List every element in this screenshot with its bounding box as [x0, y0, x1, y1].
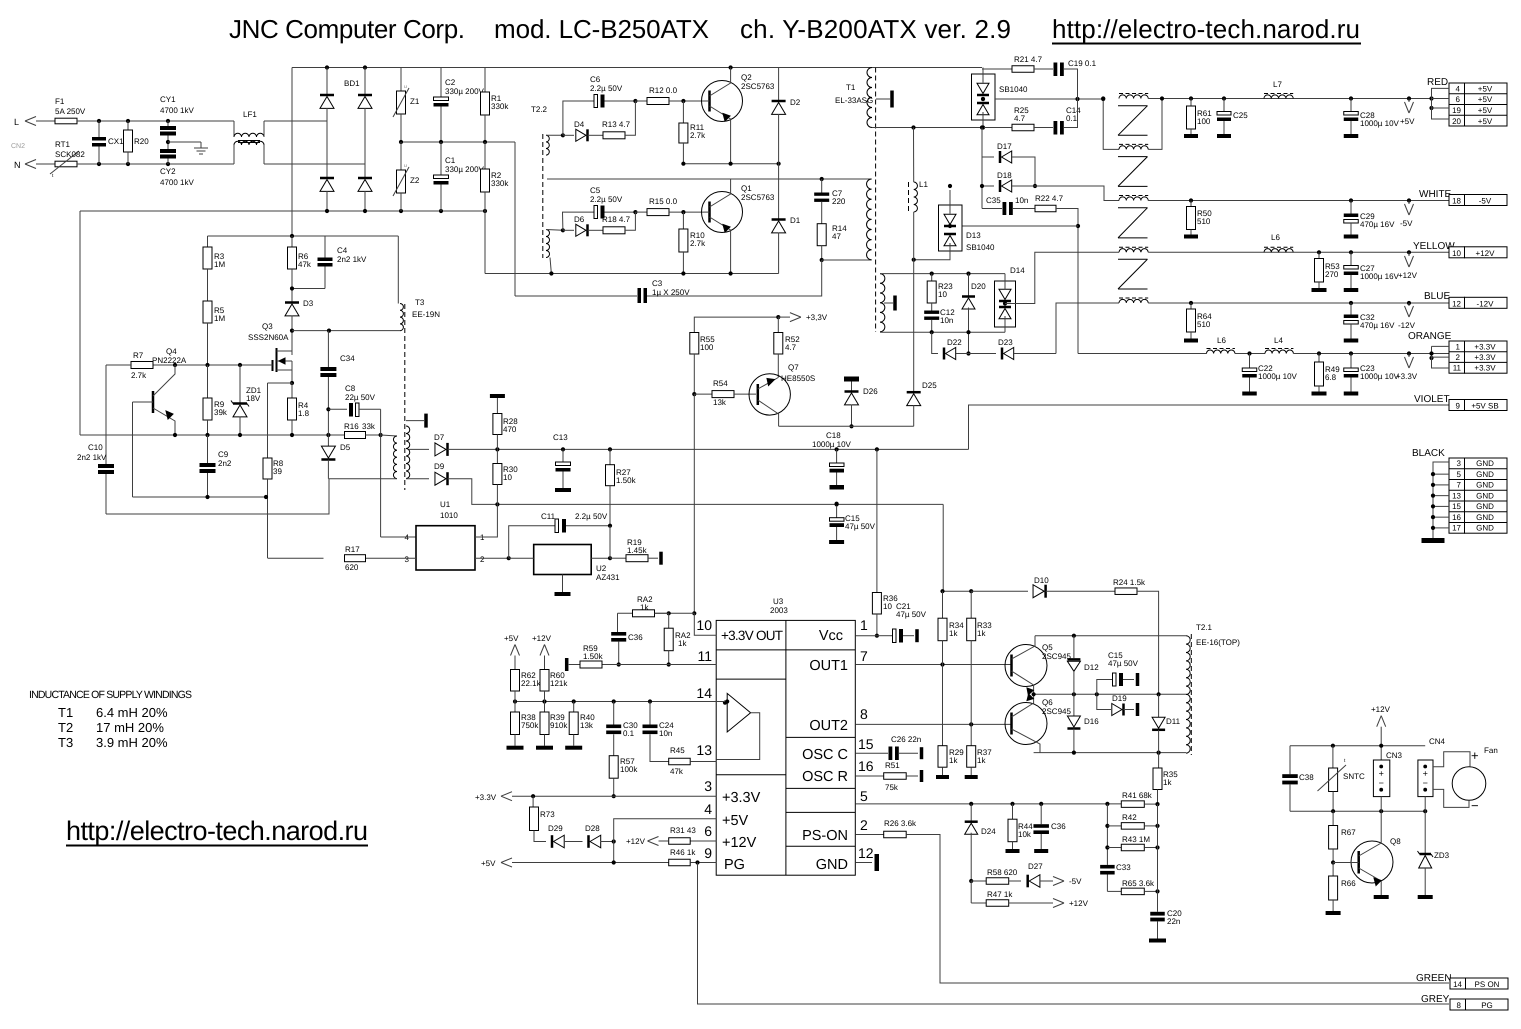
svg-text:1k: 1k — [977, 629, 986, 638]
svg-text:PN2222A: PN2222A — [152, 356, 187, 365]
svg-text:D3: D3 — [303, 299, 314, 308]
resistor R20 — [127, 121, 129, 130]
resistor R21 — [982, 68, 1012, 70]
connector PG table — [1450, 999, 1466, 1010]
svg-text:D27: D27 — [1028, 862, 1043, 871]
resistor R24 — [1115, 588, 1137, 595]
svg-text:510: 510 — [1197, 320, 1211, 329]
svg-text:15: 15 — [1452, 502, 1461, 511]
svg-text:Z2: Z2 — [410, 176, 420, 185]
svg-text:-12V: -12V — [1398, 321, 1416, 330]
svg-text:BLACK: BLACK — [1412, 448, 1445, 459]
wire PS-ON to green — [906, 835, 1449, 984]
svg-text:R24 1.5k: R24 1.5k — [1113, 578, 1146, 587]
ground black bar — [1422, 538, 1445, 543]
resistor R67 — [1332, 811, 1334, 825]
svg-text:T2.2: T2.2 — [531, 105, 548, 114]
resistor R65 — [1107, 890, 1121, 892]
svg-text:D16: D16 — [1084, 717, 1099, 726]
diode D28 — [590, 835, 601, 848]
capacitor C2 — [440, 68, 442, 98]
svg-text:AZ431: AZ431 — [596, 573, 620, 582]
power arrow +12V b — [648, 837, 659, 842]
svg-text:11: 11 — [697, 648, 712, 664]
svg-text:D29: D29 — [548, 824, 563, 833]
resistor R37 — [970, 724, 972, 745]
svg-text:1k: 1k — [678, 639, 687, 648]
capacitor C19 — [1034, 68, 1053, 70]
wire mid bus riser to C3 — [514, 142, 516, 296]
svg-text:+3.3V: +3.3V — [722, 790, 761, 806]
wire sec stack — [981, 128, 983, 209]
connector +3.3V table — [1449, 341, 1465, 373]
resistor R62 — [511, 670, 520, 692]
svg-text:+3.3V: +3.3V — [475, 793, 497, 802]
wire -5V rail — [1148, 200, 1449, 202]
resistor R38 — [514, 702, 516, 713]
capacitor C15 vcc — [836, 504, 838, 518]
svg-text:C34: C34 — [340, 354, 355, 363]
resistor R12 — [635, 100, 647, 102]
resistor R16 33k — [345, 432, 366, 439]
transistor Q7 — [749, 374, 790, 415]
svg-text:R15 0.0: R15 0.0 — [649, 197, 678, 206]
svg-text:330µ 200V: 330µ 200V — [445, 87, 485, 96]
svg-text:SNTC: SNTC — [1343, 772, 1365, 781]
connector PS ON table — [1450, 978, 1466, 989]
svg-text:PS ON: PS ON — [1475, 980, 1500, 989]
resistor R17 — [345, 555, 366, 562]
resistor R10 — [682, 212, 684, 229]
svg-text:22.1k: 22.1k — [521, 679, 542, 688]
svg-text:1.50k: 1.50k — [583, 652, 604, 661]
svg-text:L4: L4 — [1274, 336, 1283, 345]
diode D6 — [563, 229, 574, 231]
wire U3 pin3 rail — [512, 795, 716, 797]
svg-text:OUT1: OUT1 — [809, 658, 848, 674]
svg-text:220: 220 — [832, 197, 846, 206]
svg-text:R51: R51 — [885, 761, 900, 770]
svg-text:U3: U3 — [773, 597, 784, 606]
svg-text:4700 1kV: 4700 1kV — [160, 106, 194, 115]
wire Q3 source node — [290, 381, 294, 385]
svg-text:20: 20 — [1452, 117, 1461, 126]
resistor R46 — [669, 859, 691, 866]
resistor R4 — [291, 383, 293, 398]
svg-text:+5V: +5V — [1478, 95, 1493, 104]
svg-text:D2: D2 — [790, 98, 801, 107]
svg-text:+5V: +5V — [1478, 106, 1493, 115]
svg-text:R73: R73 — [540, 810, 555, 819]
wire C11 junction down — [609, 526, 611, 559]
svg-text:PG: PG — [724, 857, 745, 873]
capacitor C12 — [931, 303, 933, 311]
wire U3 pin2 PS-ON — [855, 834, 883, 836]
resistor R26 — [884, 831, 907, 838]
svg-text:-5V: -5V — [1069, 877, 1082, 886]
svg-text:R54: R54 — [713, 379, 728, 388]
svg-text:100: 100 — [1197, 117, 1211, 126]
diode D3 — [285, 301, 299, 304]
rectifier D14 — [995, 281, 1016, 327]
diode D29 — [554, 835, 565, 848]
svg-text:Z1: Z1 — [410, 97, 420, 106]
svg-text:+3.3V: +3.3V — [1396, 372, 1418, 381]
svg-text:L6: L6 — [1271, 233, 1280, 242]
capacitor C14 — [1034, 127, 1053, 129]
connector +12V table — [1449, 247, 1465, 258]
svg-text:+5V: +5V — [504, 634, 519, 643]
svg-text:270: 270 — [1325, 270, 1339, 279]
wire Q2 loop — [561, 133, 565, 137]
resistor R55 — [690, 333, 699, 355]
fuse F1 — [55, 118, 77, 124]
svg-text:1k: 1k — [949, 756, 958, 765]
svg-text:+12V: +12V — [626, 837, 646, 846]
wire mid bus — [401, 141, 515, 143]
svg-text:C33: C33 — [1116, 863, 1131, 872]
svg-text:ch. Y-B200ATX ver. 2.9: ch. Y-B200ATX ver. 2.9 — [740, 14, 1011, 44]
capacitor CX1 — [98, 121, 100, 137]
svg-text:1k: 1k — [949, 629, 958, 638]
wire gate rail — [131, 364, 273, 366]
svg-text:12: 12 — [1452, 299, 1461, 308]
ic U3 opamp — [727, 693, 750, 732]
wire third winding bottom rail — [880, 331, 1005, 333]
svg-text:3: 3 — [405, 555, 410, 564]
capacitor CY1 — [167, 121, 169, 126]
svg-text:u: u — [404, 163, 407, 169]
svg-text:+: + — [1471, 748, 1479, 763]
wire low rail — [528, 273, 779, 275]
svg-text:15: 15 — [858, 736, 874, 752]
svg-text:5: 5 — [1457, 470, 1462, 479]
svg-text:BLUE: BLUE — [1424, 291, 1450, 302]
svg-text:L1: L1 — [919, 180, 928, 189]
svg-text:1M: 1M — [214, 260, 225, 269]
wire U3 pin8 — [855, 723, 1011, 725]
wire D13 bottom to L1 — [914, 251, 950, 260]
svg-text:0.1: 0.1 — [623, 729, 635, 738]
wire C8 riser to U1 pin4 — [380, 409, 382, 537]
svg-text:75k: 75k — [885, 783, 899, 792]
zener ZD1 — [239, 365, 241, 404]
capacitor C11 — [509, 526, 555, 559]
svg-text:10n: 10n — [659, 729, 672, 738]
diode D11 — [1158, 694, 1160, 717]
svg-text:0.1: 0.1 — [1066, 114, 1078, 123]
svg-text:+12V: +12V — [1069, 899, 1089, 908]
resistor R64 — [1190, 303, 1192, 309]
diode D12 — [1073, 636, 1075, 659]
transformer T2.2 winding lower — [546, 230, 550, 258]
svg-text:1k: 1k — [1163, 778, 1172, 787]
svg-text:6.4 mH 20%: 6.4 mH 20% — [96, 705, 168, 720]
svg-text:R21 4.7: R21 4.7 — [1014, 55, 1043, 64]
svg-text:C19 0.1: C19 0.1 — [1068, 59, 1097, 68]
svg-text:D26: D26 — [863, 387, 878, 396]
choke -12V winding — [1119, 299, 1148, 303]
power arrow -5V out — [1405, 204, 1410, 215]
resistor R5 — [203, 301, 212, 323]
svg-text:Q8: Q8 — [1390, 837, 1401, 846]
svg-text:GND: GND — [1476, 470, 1494, 479]
wire U3 pin11 — [569, 664, 717, 666]
diode D1 — [778, 164, 780, 220]
svg-text:+3.3V: +3.3V — [1474, 364, 1496, 373]
svg-text:RED: RED — [1427, 77, 1448, 88]
svg-text:4: 4 — [405, 533, 410, 542]
svg-text:EE-19N: EE-19N — [412, 310, 440, 319]
svg-text:910k: 910k — [550, 721, 568, 730]
resistor R53 — [1318, 252, 1320, 258]
svg-text:D19: D19 — [1112, 694, 1127, 703]
resistor R22 — [1035, 205, 1056, 212]
diode D7 — [409, 448, 429, 450]
svg-text:C9: C9 — [218, 450, 229, 459]
transformer T1 core bar top — [876, 98, 890, 100]
rectifier D13 SB1040 — [939, 205, 963, 251]
capacitor C9 — [207, 435, 209, 463]
svg-text:Q6: Q6 — [1042, 698, 1053, 707]
svg-text:GREEN: GREEN — [1416, 973, 1452, 984]
svg-text:ORANGE: ORANGE — [1408, 331, 1452, 342]
svg-text:1.45k: 1.45k — [627, 546, 648, 555]
svg-text:14: 14 — [1453, 980, 1462, 989]
wire Q1 loop — [561, 228, 565, 232]
wire +12V rail — [1148, 251, 1449, 253]
wire sec top rail — [876, 67, 982, 69]
svg-text:R58 620: R58 620 — [987, 868, 1018, 877]
svg-text:T3: T3 — [58, 735, 73, 750]
svg-text:6: 6 — [704, 823, 712, 839]
svg-text:R12 0.0: R12 0.0 — [649, 86, 678, 95]
svg-text:330µ 200V: 330µ 200V — [445, 165, 485, 174]
diode D24 — [970, 804, 972, 822]
capacitor C22 — [1249, 354, 1251, 369]
wire D7 row — [448, 448, 969, 450]
svg-text:CY2: CY2 — [160, 167, 176, 176]
svg-text:Fan: Fan — [1484, 746, 1498, 755]
svg-text:2.2µ 50V: 2.2µ 50V — [575, 512, 608, 521]
svg-text:T1: T1 — [846, 83, 856, 92]
wire Q2 emitter rail — [683, 163, 778, 165]
wire bottom drive rail — [1034, 752, 1186, 754]
svg-text:22n: 22n — [1167, 917, 1180, 926]
resistor R14 — [817, 224, 826, 246]
wire D10 row — [943, 590, 972, 592]
diode D18 — [982, 185, 994, 187]
resistor R66 — [1332, 863, 1334, 877]
svg-text:R43 1M: R43 1M — [1122, 835, 1150, 844]
resistor R19 — [610, 557, 626, 559]
svg-text:8: 8 — [860, 706, 868, 722]
svg-text:http://electro-tech.narod.ru: http://electro-tech.narod.ru — [66, 816, 368, 846]
wire B+ riser to startup — [291, 68, 293, 237]
terminal bar pin11 — [565, 658, 569, 671]
wire fan mid rail — [1290, 810, 1425, 812]
diode D25 — [907, 391, 921, 394]
svg-text:6.8: 6.8 — [1325, 373, 1337, 382]
power arrow +5V out — [1405, 102, 1410, 113]
svg-text:C1: C1 — [445, 156, 456, 165]
resistor R52 — [777, 317, 779, 332]
wire hot rail T2.2 to T1 — [547, 178, 872, 180]
svg-text:2SC5763: 2SC5763 — [741, 82, 775, 91]
svg-text:16: 16 — [858, 758, 874, 774]
svg-text:T2: T2 — [58, 720, 73, 735]
svg-text:47µ 50V: 47µ 50V — [1108, 659, 1139, 668]
svg-text:7: 7 — [1457, 481, 1462, 490]
wire emitter mid rail — [1034, 693, 1186, 695]
svg-text:VIOLET: VIOLET — [1414, 394, 1450, 405]
wire +5V rail — [1148, 98, 1449, 100]
svg-text:SB1040: SB1040 — [966, 243, 995, 252]
resistor R2 — [484, 142, 486, 169]
resistor R45 — [669, 758, 691, 765]
choke +5V parallel loop — [1103, 99, 1119, 150]
svg-text:+5V: +5V — [722, 813, 749, 829]
svg-text:D10: D10 — [1034, 576, 1049, 585]
svg-text:10: 10 — [503, 473, 512, 482]
svg-text:R18 4.7: R18 4.7 — [602, 215, 631, 224]
svg-text:D14: D14 — [1010, 266, 1025, 275]
svg-text:13: 13 — [696, 742, 712, 758]
wire N to bridge — [292, 163, 365, 165]
svg-text:C5: C5 — [590, 186, 601, 195]
svg-text:10: 10 — [696, 617, 712, 633]
wire pin16 R51 — [855, 775, 883, 777]
diode D16 — [1073, 694, 1075, 715]
capacitor C20 — [1157, 891, 1159, 911]
svg-text:4.7: 4.7 — [785, 343, 797, 352]
thermistor SNTC — [1332, 746, 1334, 768]
svg-text:T1: T1 — [58, 705, 73, 720]
svg-text:330k: 330k — [491, 102, 509, 111]
wire R5 to gate rail — [207, 323, 209, 365]
svg-text:8: 8 — [1457, 1001, 1462, 1010]
svg-text:D18: D18 — [997, 171, 1012, 180]
svg-text:Vcc: Vcc — [819, 628, 843, 644]
svg-text:CN4: CN4 — [1429, 737, 1446, 746]
resistor R49 — [1318, 354, 1320, 363]
svg-text:C3: C3 — [652, 279, 663, 288]
wire left bus down — [79, 211, 81, 435]
svg-text:4.7: 4.7 — [1014, 114, 1026, 123]
node N input arrow — [25, 160, 36, 165]
svg-text:D25: D25 — [922, 381, 937, 390]
resistor R27 — [609, 449, 611, 464]
ground above R28 — [490, 394, 505, 398]
wire top bus B+ — [292, 67, 982, 69]
wire D5 row to T3 — [328, 478, 397, 480]
wire sec mid rail — [995, 98, 1103, 100]
svg-text:SB1040: SB1040 — [999, 85, 1028, 94]
transistor Q3 mosfet — [272, 360, 274, 371]
svg-text:+3.3V: +3.3V — [1474, 353, 1496, 362]
svg-text:330k: 330k — [491, 179, 509, 188]
svg-text:GND: GND — [1476, 491, 1494, 500]
resistor R58 — [971, 880, 986, 882]
resistor R31 — [669, 838, 691, 845]
svg-text:L6: L6 — [1217, 336, 1226, 345]
svg-text:1: 1 — [860, 617, 868, 633]
svg-text:10k: 10k — [1018, 830, 1032, 839]
wire source rail — [80, 434, 345, 436]
wire D3 to Q3 drain — [291, 316, 293, 352]
svg-text:18V: 18V — [246, 394, 261, 403]
svg-text:SCK082: SCK082 — [55, 150, 85, 159]
diode D10 — [1033, 585, 1044, 598]
ic U3 box — [716, 620, 855, 875]
wire U1 pin1 — [475, 504, 497, 537]
resistor R50 — [1190, 201, 1192, 207]
wire collector rail q5 — [1035, 635, 1186, 637]
svg-text:CX1: CX1 — [108, 137, 124, 146]
varistor Z2 — [400, 142, 402, 170]
svg-text:PG: PG — [1481, 1001, 1493, 1010]
svg-text:+5V: +5V — [1478, 85, 1493, 94]
wire C3 row — [515, 295, 637, 297]
svg-text:+12V: +12V — [1371, 705, 1391, 714]
svg-text:mod. LC-B250ATX: mod. LC-B250ATX — [494, 14, 709, 44]
svg-text:121k: 121k — [550, 679, 568, 688]
resistor R1 — [484, 68, 486, 93]
wire third winding top rail — [880, 273, 1005, 275]
svg-text:2.7k: 2.7k — [690, 239, 706, 248]
wire drain to C34/T3 — [292, 330, 400, 332]
power arrow +5V a — [511, 645, 516, 656]
thermistor RT1 — [55, 161, 77, 167]
svg-text:ZD3: ZD3 — [1434, 851, 1450, 860]
svg-text:SSS2N60A: SSS2N60A — [248, 333, 289, 342]
svg-text:C38: C38 — [1299, 773, 1314, 782]
svg-text:47: 47 — [832, 232, 841, 241]
wire pin10 node rail — [618, 612, 695, 614]
svg-text:GND: GND — [1476, 459, 1494, 468]
svg-text:JNC Computer Corp.: JNC Computer Corp. — [229, 14, 465, 44]
wire R35 column — [1157, 804, 1159, 891]
capacitor C35 — [982, 208, 1002, 210]
wire C10 loop bottom — [106, 479, 329, 514]
wire R14 to T1 — [822, 259, 872, 261]
svg-text:47µ 50V: 47µ 50V — [845, 522, 876, 531]
svg-text:10n: 10n — [940, 316, 953, 325]
resistor R30 — [496, 449, 498, 463]
svg-text:1000µ 10V: 1000µ 10V — [1258, 372, 1298, 381]
svg-text:GND: GND — [1476, 502, 1494, 511]
capacitor C32 — [1350, 303, 1352, 315]
resistor R54 — [694, 393, 712, 395]
svg-text:GND: GND — [1476, 513, 1494, 522]
svg-text:-12V: -12V — [1477, 299, 1495, 308]
diode D4 — [563, 134, 574, 136]
choke core Z3 — [1118, 207, 1148, 209]
capacitor C27 — [1350, 252, 1352, 265]
wire 5VSB to violet — [969, 405, 1450, 449]
wire PG to grey — [698, 863, 1450, 1005]
resistor R36 — [876, 449, 878, 592]
ic U3 pin12 gnd bar — [855, 862, 872, 864]
svg-text:100k: 100k — [620, 765, 638, 774]
capacitor C10 — [105, 365, 107, 464]
choke +5V winding — [1119, 95, 1148, 99]
svg-text:19: 19 — [1452, 106, 1461, 115]
choke core Z2 — [1118, 156, 1148, 158]
svg-text:+5V: +5V — [481, 859, 496, 868]
shunt reg U2 — [534, 545, 592, 575]
capacitor C30 — [613, 702, 615, 725]
